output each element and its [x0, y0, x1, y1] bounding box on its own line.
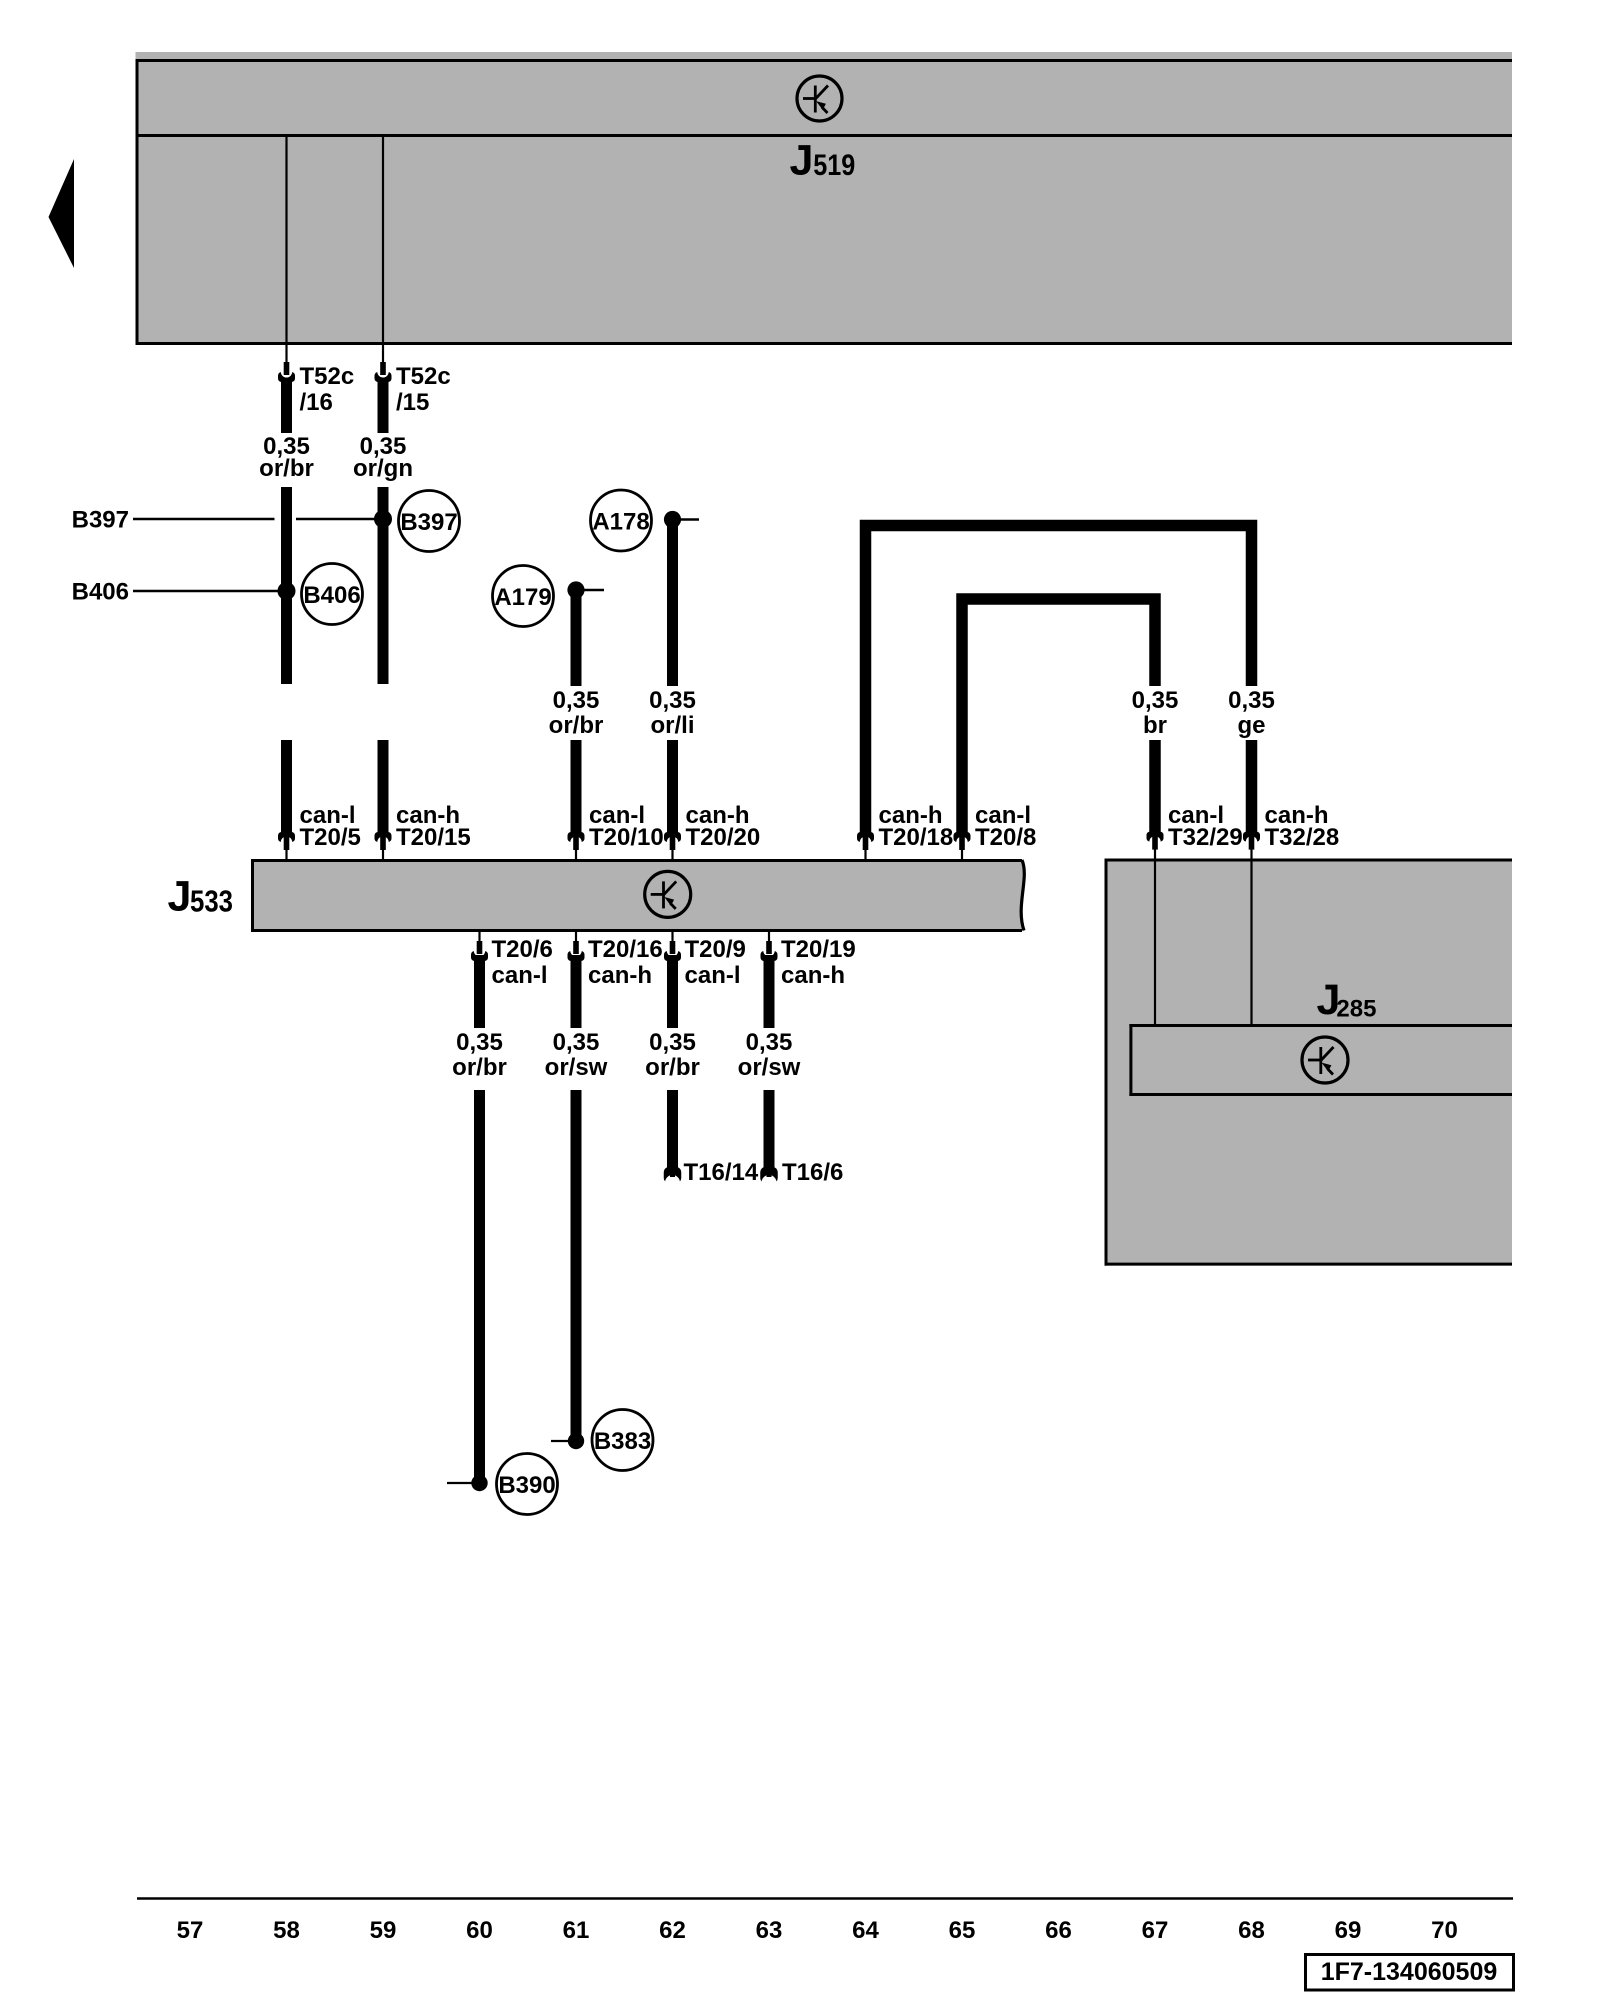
- wire or/br from T20/9 to T16/14: [667, 955, 678, 1028]
- svg-text:can-l: can-l: [685, 962, 741, 989]
- svg-text:57: 57: [177, 1917, 204, 1944]
- svg-text:/16: /16: [300, 389, 333, 416]
- pin T52c/16: [285, 343, 287, 366]
- svg-text:A179: A179: [494, 584, 551, 611]
- svg-text:or/sw: or/sw: [738, 1054, 801, 1081]
- svg-text:can-h: can-h: [588, 962, 652, 989]
- svg-text:T16/14: T16/14: [684, 1159, 759, 1186]
- wire or/sw from T20/19 to T16/6: [764, 955, 775, 1028]
- svg-text:or/gn: or/gn: [353, 455, 413, 482]
- svg-text:59: 59: [370, 1917, 397, 1944]
- svg-text:/15: /15: [396, 389, 429, 416]
- K symbol in J285: [1302, 1037, 1348, 1083]
- node dot and stub A178: [664, 511, 681, 528]
- CAN bus wire loop inner (T20/8 to T32/29): [962, 599, 1155, 836]
- callout circle B383: [592, 1410, 653, 1471]
- junction dot B397: [374, 510, 392, 528]
- page-turn arrow: [49, 159, 75, 268]
- svg-text:70: 70: [1431, 1917, 1458, 1944]
- svg-text:or/br: or/br: [645, 1054, 700, 1081]
- pin T20/5 (can-l) into J533: [278, 832, 295, 842]
- K symbol in J519: [797, 76, 842, 121]
- svg-text:T20/15: T20/15: [396, 824, 471, 851]
- svg-text:B406: B406: [303, 582, 360, 609]
- callout circle B390: [497, 1454, 558, 1515]
- internal wire in J519 to pin T52c/15: [382, 137, 384, 344]
- svg-text:65: 65: [949, 1917, 976, 1944]
- control unit J519 box (onboard supply control unit): [136, 52, 1513, 344]
- svg-text:60: 60: [466, 1917, 493, 1944]
- svg-text:T52c: T52c: [300, 363, 355, 390]
- svg-text:T20/9: T20/9: [685, 936, 746, 963]
- pin T20/9 (can-l) from J533 bottom: [671, 930, 673, 945]
- pin T32/28 (can-h) into J285: [1243, 832, 1260, 842]
- wire or/li from A178 to T20/20: [667, 519, 678, 686]
- svg-text:T32/28: T32/28: [1265, 824, 1340, 851]
- svg-text:0,35: 0,35: [649, 687, 696, 714]
- wire or/sw from T20/16 to B383: [571, 955, 582, 1028]
- pin T20/20 (can-h) into J533: [664, 832, 681, 842]
- svg-text:0,35: 0,35: [746, 1029, 793, 1056]
- svg-text:0,35: 0,35: [456, 1029, 503, 1056]
- svg-text:T20/19: T20/19: [781, 936, 856, 963]
- svg-text:0,35: 0,35: [553, 1029, 600, 1056]
- svg-text:68: 68: [1238, 1917, 1265, 1944]
- wire or/br from T20/6 to B390: [474, 955, 485, 1028]
- pin T20/10 (can-l) into J533: [568, 832, 585, 842]
- svg-text:T20/5: T20/5: [300, 824, 361, 851]
- svg-text:64: 64: [852, 1917, 879, 1944]
- svg-text:58: 58: [273, 1917, 300, 1944]
- svg-text:can-l: can-l: [492, 962, 548, 989]
- pin T20/16 (can-h) from J533 bottom: [575, 930, 577, 945]
- coordinate scale line: [137, 1897, 1513, 1900]
- internal wire in J285 from T32/29: [1154, 861, 1156, 1024]
- callout circle B397: [399, 491, 460, 552]
- instrument cluster control unit J285 box: [1105, 859, 1513, 1266]
- wire or/br from T52c/16 to T20/5: [281, 378, 292, 433]
- data bus diagnostic interface J533 box: [253, 861, 1025, 930]
- CAN bus wire loop outer (T20/18 to T32/28): [866, 526, 1252, 837]
- svg-text:B397: B397: [72, 507, 129, 534]
- svg-text:67: 67: [1142, 1917, 1169, 1944]
- svg-text:533: 533: [190, 884, 233, 919]
- internal bus strip in J285: [1129, 1024, 1512, 1027]
- pin T32/29 (can-l) into J285: [1147, 832, 1164, 842]
- svg-text:B383: B383: [594, 1428, 651, 1455]
- svg-text:T20/16: T20/16: [588, 936, 663, 963]
- node dot and stub A179: [567, 581, 584, 598]
- internal wire in J519 to pin T52c/16: [285, 137, 287, 344]
- internal wire in J285 from T32/28: [1250, 861, 1252, 1024]
- svg-text:0,35: 0,35: [553, 687, 600, 714]
- svg-text:0,35: 0,35: [1228, 687, 1275, 714]
- pin T20/18 (can-h) into J533: [857, 832, 874, 842]
- svg-text:J: J: [168, 873, 192, 921]
- svg-text:or/br: or/br: [549, 712, 604, 739]
- svg-text:or/br: or/br: [259, 455, 314, 482]
- svg-text:ge: ge: [1237, 712, 1265, 739]
- svg-text:B406: B406: [72, 579, 129, 606]
- svg-text:61: 61: [563, 1917, 590, 1944]
- svg-text:B390: B390: [498, 1472, 555, 1499]
- svg-text:br: br: [1143, 712, 1167, 739]
- svg-text:or/li: or/li: [650, 712, 694, 739]
- svg-text:519: 519: [813, 149, 855, 182]
- svg-text:T20/6: T20/6: [492, 936, 553, 963]
- svg-text:T20/20: T20/20: [686, 824, 761, 851]
- svg-text:63: 63: [756, 1917, 783, 1944]
- pin T20/19 (can-h) from J533 bottom: [768, 930, 770, 945]
- svg-text:T20/8: T20/8: [975, 824, 1036, 851]
- svg-text:J: J: [790, 137, 814, 185]
- callout circle A179: [493, 566, 554, 627]
- open terminal T16/6: [760, 1167, 778, 1183]
- svg-text:1F7-134060509: 1F7-134060509: [1321, 1958, 1498, 1986]
- svg-text:or/br: or/br: [452, 1054, 507, 1081]
- svg-text:0,35: 0,35: [1132, 687, 1179, 714]
- wire or/gn from T52c/15 to T20/15: [378, 378, 389, 433]
- svg-text:A178: A178: [592, 509, 649, 536]
- svg-text:T32/29: T32/29: [1168, 824, 1243, 851]
- node dot and stub B390: [471, 1475, 487, 1491]
- K symbol in J533: [645, 871, 691, 917]
- pin T20/15 (can-h) into J533: [375, 832, 392, 842]
- node dot and stub B383: [568, 1433, 584, 1449]
- svg-text:285: 285: [1336, 996, 1376, 1023]
- svg-text:69: 69: [1335, 1917, 1362, 1944]
- svg-text:0,35: 0,35: [649, 1029, 696, 1056]
- wire or/br from A179 to T20/10: [571, 590, 582, 686]
- callout circle A178: [591, 490, 652, 551]
- svg-text:T20/10: T20/10: [589, 824, 664, 851]
- svg-text:66: 66: [1045, 1917, 1072, 1944]
- pin T20/6 (can-l) from J533 bottom: [478, 930, 480, 945]
- svg-text:62: 62: [659, 1917, 686, 1944]
- svg-text:B397: B397: [400, 509, 457, 536]
- svg-text:can-h: can-h: [781, 962, 845, 989]
- diagram id box 1F7-134060509: [1306, 1955, 1514, 1991]
- pin T52c/15: [382, 343, 384, 366]
- svg-text:T20/18: T20/18: [879, 824, 954, 851]
- svg-text:or/sw: or/sw: [545, 1054, 608, 1081]
- pin T20/8 (can-l) into J533: [954, 832, 971, 842]
- svg-text:T52c: T52c: [396, 363, 451, 390]
- callout circle B406: [302, 564, 363, 625]
- junction dot B406: [278, 582, 296, 600]
- open terminal T16/14: [664, 1167, 682, 1183]
- svg-text:T16/6: T16/6: [782, 1159, 843, 1186]
